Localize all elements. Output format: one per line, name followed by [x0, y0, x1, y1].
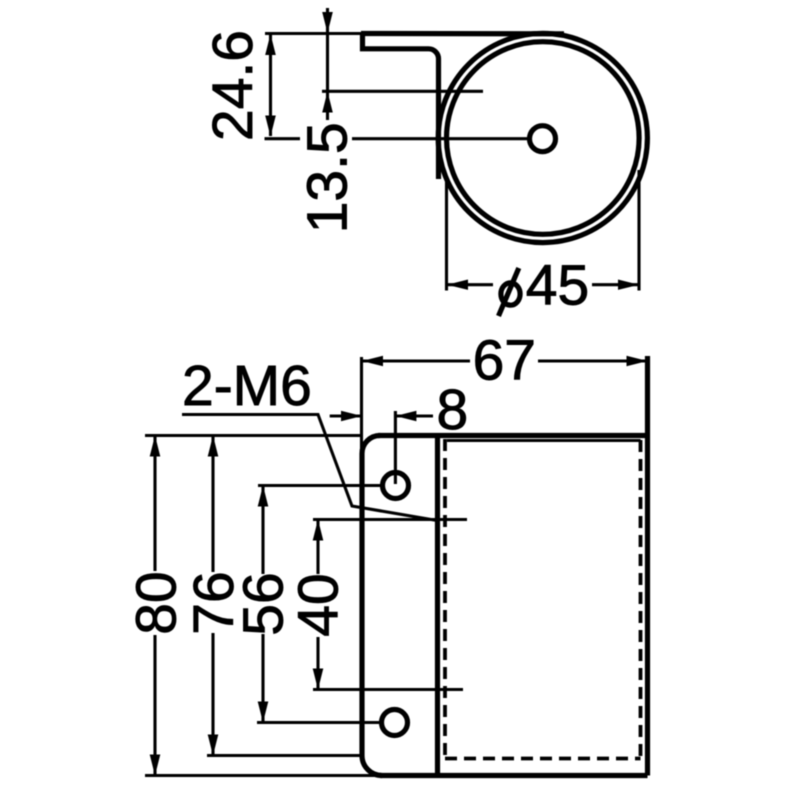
svg-text:40: 40: [287, 573, 351, 636]
svg-text:45: 45: [526, 254, 589, 318]
svg-text:13.5: 13.5: [296, 122, 360, 233]
svg-text:67: 67: [473, 329, 536, 393]
svg-text:80: 80: [125, 571, 189, 634]
svg-text:2-M6: 2-M6: [182, 354, 312, 418]
svg-text:8: 8: [437, 378, 469, 442]
svg-text:24.6: 24.6: [201, 30, 265, 141]
